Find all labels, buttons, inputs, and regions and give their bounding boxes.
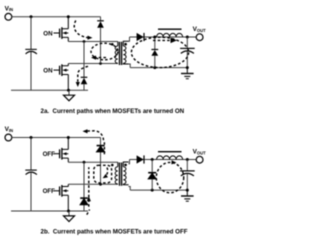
current path Q1 arc [74,21,88,38]
arrow node B return [91,56,96,60]
current path node B return [94,57,106,59]
current path rail bend [87,210,90,215]
svg-text:2a. Current paths when MOSFET: 2a. Current paths when MOSFETs are turne… [41,108,185,115]
arrow secondary loop top [171,160,176,164]
current path primary loop [91,43,118,60]
svg-text:VOUT: VOUT [193,26,207,33]
diode D4 bold + leads [148,158,156,192]
svg-text:OFF: OFF [43,188,56,195]
arrow inductor current [171,38,178,43]
arrow left over rail [83,129,88,133]
arrow into node A [88,36,93,40]
svg-text:ON: ON [43,68,53,75]
diode D4 freewheel + leads [151,36,158,70]
svg-text:2b. Current paths when MOSFET: 2b. Current paths when MOSFETs are turne… [41,229,188,236]
diode D1 bold [97,138,105,152]
diode D1 [97,21,104,28]
arrow down Q2 [76,82,80,87]
current path primary small loop [94,165,112,183]
current path over rail arc [85,131,104,140]
current path beside D2 up [88,167,90,207]
svg-text:ON: ON [43,30,53,37]
current path secondary loop [156,162,183,192]
current path Q2 descent [78,66,88,84]
current path inductor arrow line [153,39,173,41]
diode D2 bold [80,198,88,205]
svg-text:OFF: OFF [43,151,56,158]
diode D2 [81,77,88,84]
current path small arrow inside loop [104,168,108,178]
svg-text:VOUT: VOUT [193,149,207,156]
current path beside D1 [103,142,105,155]
svg-text:VIN: VIN [5,126,13,133]
arrow up beside D2 [87,196,91,201]
arrow small loop [101,174,107,180]
current path secondary loop [131,37,188,67]
svg-text:VIN: VIN [5,5,13,12]
